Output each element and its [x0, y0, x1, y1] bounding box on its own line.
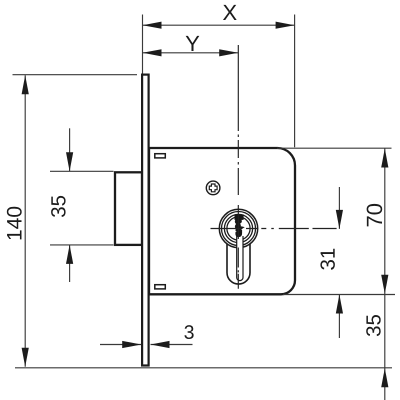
cylinder ring circle	[222, 212, 256, 246]
dimension 140 top arrow	[22, 75, 29, 94]
horizontal center line through cylinder	[211, 228, 337, 230]
dimension 35-bottom arrow	[381, 368, 388, 387]
dimension 3 left line	[100, 344, 141, 346]
screw phillips cross	[209, 184, 217, 192]
label 140	[7, 207, 22, 240]
dimension 3 right arrow	[151, 341, 170, 348]
dimension 3 left arrow	[122, 341, 141, 348]
extension line left of X/Y dims	[142, 15, 144, 74]
label Y	[186, 36, 200, 51]
dimension X line	[143, 24, 295, 26]
extension line right of X dim	[294, 15, 296, 148]
dimension 140 line	[24, 75, 26, 367]
dimension 31 upper line	[338, 187, 340, 229]
screw head	[206, 181, 220, 195]
dimension 35-left upper arrow	[66, 152, 73, 171]
extension line case bottom right	[283, 294, 395, 296]
dimension X right arrow	[276, 22, 295, 29]
dimension 70 bottom arrow	[381, 275, 388, 294]
dimension 70/35 right line	[384, 149, 386, 400]
faceplate	[142, 75, 149, 366]
extension line top of 140 dim	[13, 74, 138, 76]
dimension 35-left lower arrow	[66, 245, 73, 264]
extension line top of 35-left dim	[50, 170, 114, 172]
key profile silhouette	[235, 215, 244, 237]
cylinder plug circle	[227, 217, 250, 240]
vertical center line through cylinder	[237, 45, 239, 289]
bottom fixing slot	[155, 285, 166, 289]
extension line bottom of 140 dim (full width)	[15, 367, 392, 369]
dimension 31 upper arrow	[336, 210, 343, 229]
label 35-bottom	[366, 315, 381, 336]
dimension 31 lower line	[338, 295, 340, 339]
dimension 70 top arrow	[381, 149, 388, 168]
dimension 3 right line	[151, 344, 193, 346]
dimension 31 lower arrow	[336, 295, 343, 314]
keyway channel	[237, 236, 243, 281]
lock case body	[149, 148, 295, 294]
dimension 140 bottom arrow	[22, 348, 29, 367]
cylinder rosette circle	[224, 214, 252, 242]
cylinder outer circle	[219, 209, 257, 247]
dimension X left arrow	[143, 22, 162, 29]
dimension 35-left lower line	[69, 245, 71, 282]
label X	[223, 5, 237, 20]
cylinder body (euro profile)	[227, 244, 250, 284]
label 35-left	[51, 196, 66, 217]
latch follower block	[115, 172, 142, 245]
dimension Y right arrow	[219, 49, 238, 56]
dimension Y left arrow	[143, 49, 162, 56]
label 31	[320, 249, 335, 270]
top fixing slot	[155, 154, 166, 158]
extension line bottom of 35-left dim	[50, 244, 114, 246]
extension line top of 70 dim	[277, 147, 392, 149]
dimension Y line	[143, 52, 239, 54]
dimension 35-left upper line	[69, 128, 71, 171]
label 3	[184, 325, 193, 339]
label 70	[367, 204, 383, 226]
